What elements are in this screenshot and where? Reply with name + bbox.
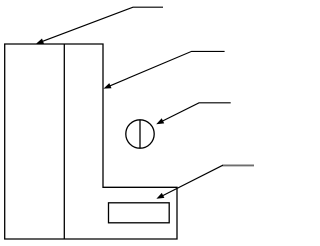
leader 2 wire xyxy=(108,51,225,86)
leader 4 wire slanted segment xyxy=(161,165,223,196)
small rectangle xyxy=(109,203,170,223)
leader 4 arrowhead xyxy=(156,193,164,199)
inner divider line xyxy=(63,44,65,239)
leader 3 arrowhead xyxy=(156,118,164,124)
L-shaped outline xyxy=(5,44,177,239)
circle with vertical diameter xyxy=(126,120,154,148)
leader 1 arrowhead xyxy=(36,39,44,44)
leader 3 wire xyxy=(161,103,231,122)
leader 2 arrowhead xyxy=(104,83,112,89)
leader 1 wire xyxy=(41,7,163,42)
leader 4 wire horizontal segment xyxy=(222,164,254,166)
